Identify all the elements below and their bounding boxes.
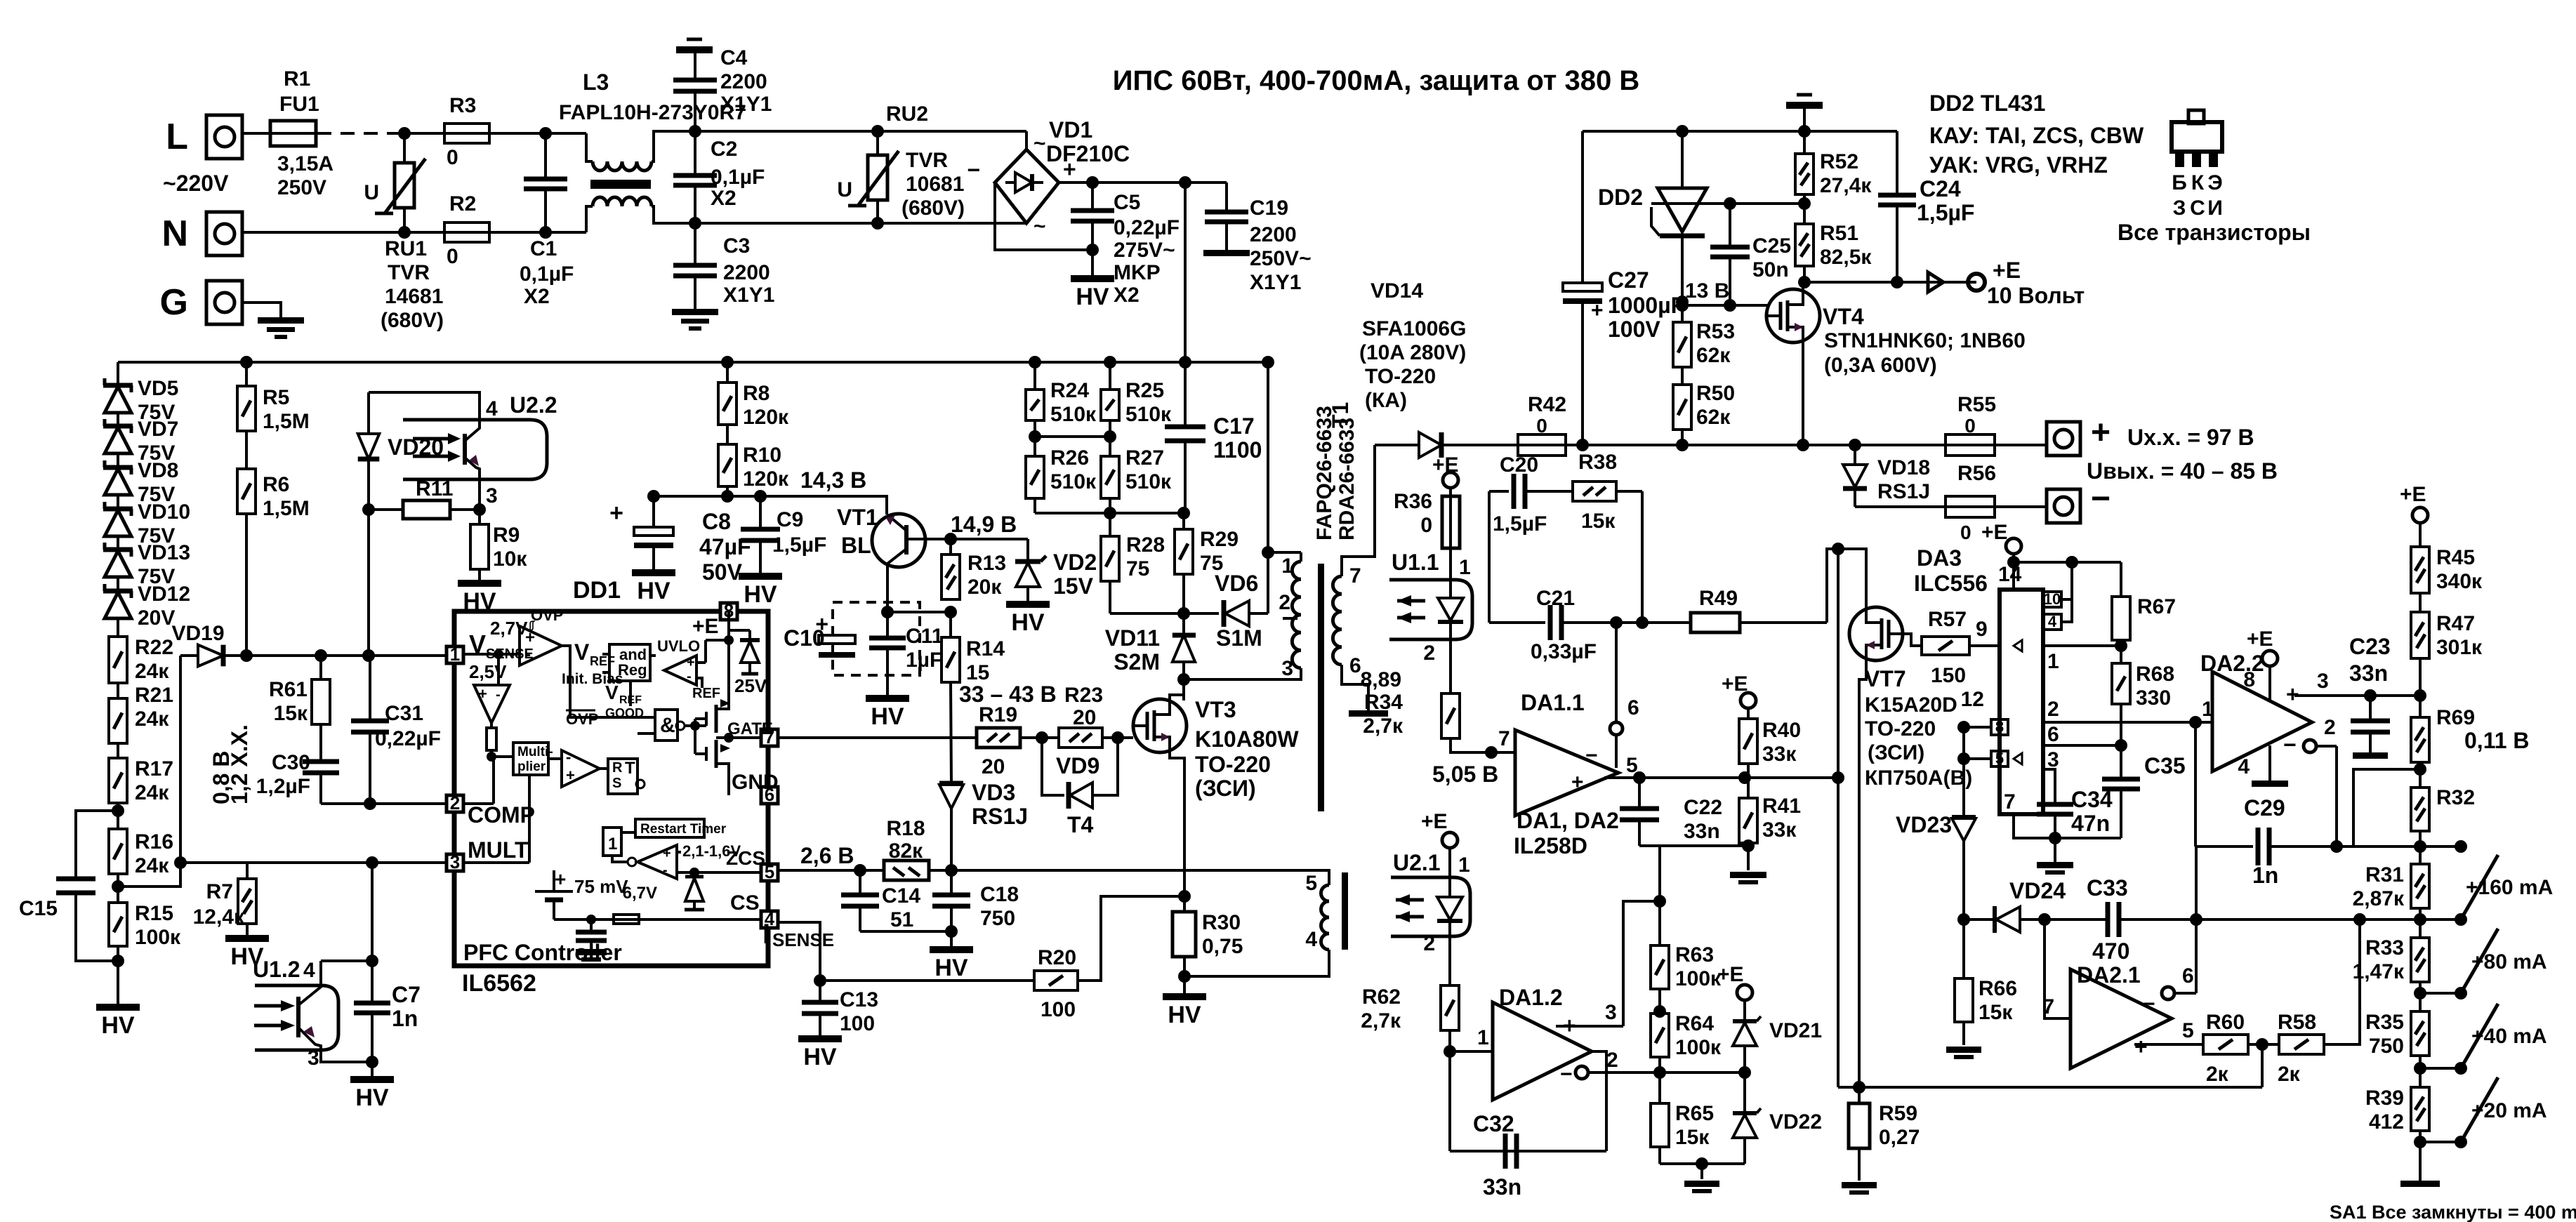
svg-text:R49: R49 (1699, 587, 1738, 610)
resistor R14 (949, 612, 952, 637)
svg-text:X2: X2 (1114, 284, 1140, 307)
svg-text:R38: R38 (1578, 451, 1617, 474)
svg-text:C24: C24 (1920, 176, 1961, 201)
comparator current (562, 750, 600, 787)
wire to VD23 (1962, 727, 1965, 817)
ground HV R7 (246, 924, 249, 935)
opamp DA1.2 (1493, 1002, 1592, 1100)
resistor R69 (2411, 717, 2429, 762)
svg-text:(680V): (680V) (901, 197, 965, 220)
node link left (1029, 430, 1041, 443)
node R40 (1738, 771, 1751, 784)
node minus row left (1653, 1066, 1666, 1079)
wire CS net (778, 922, 820, 981)
svg-text:120к: 120к (743, 467, 789, 491)
svg-text:301к: 301к (2436, 636, 2483, 659)
svg-text:IL6562: IL6562 (462, 970, 536, 997)
wire riser from drain line (1837, 549, 1839, 1087)
svg-text:250V~: 250V~ (1250, 247, 1312, 270)
terminal N (206, 212, 242, 255)
svg-text:S: S (612, 776, 621, 791)
svg-text:R31: R31 (2365, 863, 2404, 886)
svg-text:75: 75 (1126, 557, 1149, 580)
resistor R30 (1183, 896, 1186, 912)
wire N terminal to RU1 (242, 231, 445, 234)
secondary winding 7-6 (1342, 445, 1375, 576)
resistor R61 (319, 656, 322, 679)
pin 8 +E (720, 603, 737, 620)
svg-text:N: N (161, 213, 188, 254)
svg-text:0: 0 (1960, 522, 1971, 543)
svg-text:K15A20D: K15A20D (1865, 693, 1957, 717)
svg-text:47n: 47n (2071, 811, 2110, 836)
svg-text:TO-220: TO-220 (1195, 752, 1271, 777)
svg-text:R29: R29 (1200, 528, 1239, 551)
svg-text:Restart Timer: Restart Timer (640, 822, 727, 837)
capacitor C10 optional dashed (833, 602, 920, 675)
wire (245, 431, 248, 469)
switch SA1.2 (2420, 918, 2461, 921)
node VT3 source R30 (1178, 890, 1191, 903)
svg-text:33n: 33n (1483, 1174, 1521, 1200)
svg-text:VD24: VD24 (2009, 878, 2066, 903)
svg-text:24к: 24к (135, 854, 169, 877)
svg-text:U: U (364, 181, 379, 204)
svg-text:1: 1 (608, 835, 617, 854)
node R17-R16 (117, 803, 119, 829)
svg-text:10681: 10681 (906, 173, 964, 196)
node VT4 source join (1797, 439, 1809, 451)
svg-text:5: 5 (1305, 872, 1317, 895)
wire C11 row (887, 611, 951, 613)
capacitor C11 (886, 612, 889, 637)
node row5 (2414, 1136, 2426, 1148)
node row4 (2414, 1062, 2426, 1075)
svg-text:1µF: 1µF (906, 649, 942, 672)
wire (2419, 593, 2422, 612)
svg-text:GOOD: GOOD (605, 706, 644, 720)
svg-text:R5: R5 (263, 386, 289, 409)
svg-text:1,5µF: 1,5µF (1917, 200, 1974, 225)
svg-text:HV: HV (934, 955, 968, 981)
svg-text:L: L (166, 117, 188, 157)
svg-text:5: 5 (2182, 1019, 2194, 1042)
svg-text:1: 1 (1477, 1026, 1489, 1049)
resistor R26 (1026, 456, 1044, 498)
svg-text:2200: 2200 (720, 70, 767, 93)
wire VT4 source (1802, 340, 1804, 442)
pin 4 CS (761, 911, 778, 928)
svg-text:+: + (687, 655, 695, 670)
wire comp (463, 802, 494, 805)
wire (1803, 194, 1806, 224)
svg-text:VD11: VD11 (1105, 625, 1160, 651)
resistor R22 (117, 635, 119, 637)
terminal L (206, 115, 242, 159)
resistor R6 (237, 469, 256, 514)
node row3 (2414, 987, 2426, 999)
capacitor C23 (2369, 696, 2372, 719)
svg-text:3: 3 (486, 484, 498, 507)
svg-text:OVP: OVP (566, 710, 598, 728)
svg-text:3: 3 (450, 851, 460, 872)
svg-text:C17: C17 (1213, 413, 1255, 439)
svg-text:~220V: ~220V (163, 171, 229, 196)
resistor R59 (1858, 1087, 1861, 1103)
switch SA1.4 (2420, 1067, 2461, 1070)
wire R27 bottom (1109, 498, 1111, 513)
svg-text:4: 4 (303, 959, 315, 982)
wire U2.2 pin3 (478, 479, 481, 510)
svg-text:REF: REF (692, 686, 720, 701)
svg-text:R21: R21 (135, 684, 173, 707)
capacitor C31 (369, 656, 371, 719)
wire secondary plus net (1375, 444, 1419, 446)
resistor R31 (2411, 864, 2429, 908)
svg-text:R7: R7 (206, 880, 233, 903)
svg-text:C15: C15 (19, 897, 58, 920)
ground R59 (1842, 1182, 1877, 1188)
svg-text:4: 4 (2238, 755, 2250, 778)
svg-text:HV: HV (637, 578, 671, 604)
wire (1102, 736, 1133, 739)
pin 4 box (2043, 614, 2061, 630)
wire sense row 1549 (1838, 1086, 2262, 1089)
node C22 (1633, 771, 1646, 784)
svg-text:C19: C19 (1250, 197, 1288, 220)
node R30 bottom (1178, 970, 1191, 983)
mosfet VT7 (1849, 607, 1903, 660)
svg-text:1: 1 (1458, 854, 1470, 877)
wire R26 bottom (1033, 498, 1036, 513)
capacitor C3 (694, 223, 696, 264)
svg-text:7: 7 (1498, 727, 1510, 750)
switch SA1.1 (2420, 845, 2461, 848)
svg-text:+: + (1571, 771, 1584, 794)
capacitor C29 (2195, 845, 2253, 848)
svg-text:2: 2 (1279, 591, 1290, 614)
svg-text:FU1: FU1 (279, 93, 319, 116)
svg-text:C21: C21 (1536, 587, 1575, 610)
svg-text:S1M: S1M (1216, 625, 1262, 651)
svg-text:V: V (605, 682, 619, 703)
wire U2.2 pin4 feed (369, 392, 480, 420)
wire minus row (1660, 1071, 1745, 1074)
terminal minus (2047, 489, 2080, 523)
capacitor C5 (1091, 182, 1094, 209)
svg-text:COMP: COMP (468, 802, 535, 828)
ground HV chain (96, 1004, 140, 1011)
resistor R67 (2120, 562, 2122, 597)
svg-text:R63: R63 (1675, 943, 1714, 967)
node R50 (1676, 439, 1689, 451)
minus input DA2.1 (2162, 987, 2174, 999)
diode VD18 (1854, 445, 1856, 465)
svg-text:(10A 280V): (10A 280V) (1359, 341, 1466, 364)
wire pin6 row (2043, 744, 2121, 747)
svg-text:HV: HV (744, 581, 777, 608)
svg-text:275V~: 275V~ (1114, 239, 1175, 262)
svg-text:0: 0 (1420, 514, 1432, 537)
svg-text:0,22µF: 0,22µF (1114, 216, 1180, 239)
resistor R17 (109, 758, 127, 803)
svg-text:1,2 X.X.: 1,2 X.X. (227, 724, 252, 804)
svg-text:0: 0 (447, 245, 458, 268)
svg-text:2: 2 (1606, 1049, 1618, 1072)
svg-text:50V: 50V (702, 559, 743, 585)
wire pin7 to ground node (2014, 814, 2055, 838)
svg-text:+E: +E (1981, 521, 2008, 544)
wire (117, 683, 119, 698)
node rail C17 (1179, 356, 1191, 368)
svg-text:Uвых. = 40 – 85 В: Uвых. = 40 – 85 В (2087, 458, 2278, 484)
svg-text:0,1µF: 0,1µF (520, 263, 574, 286)
resistor R25 (1109, 362, 1111, 390)
wire L rail RU1 to R3 (404, 132, 445, 135)
svg-text:DA1, DA2: DA1, DA2 (1517, 808, 1619, 833)
svg-text:MKP: MKP (1114, 261, 1161, 284)
node VD18 (1849, 439, 1861, 451)
capacitor C35 (2120, 745, 2122, 778)
svg-text:2: 2 (1423, 932, 1435, 955)
svg-text:15к: 15к (274, 702, 308, 725)
svg-text:REF: REF (590, 654, 615, 668)
svg-text:R8: R8 (743, 382, 770, 405)
svg-text:C3: C3 (723, 234, 750, 258)
svg-text:+E: +E (1421, 810, 1448, 833)
node C33 right (2190, 913, 2202, 926)
node gate VD9 right (1111, 731, 1124, 744)
wire DA2.2 out riser (2194, 722, 2197, 846)
svg-text:Multi-: Multi- (517, 745, 553, 759)
node DA1.1 in (1485, 746, 1498, 759)
svg-text:5: 5 (1995, 750, 2004, 767)
resistor R23 (1059, 728, 1102, 748)
svg-text:IL258D: IL258D (1514, 833, 1587, 858)
wire gate line (778, 736, 955, 739)
wire DD2 top rail (1583, 130, 1897, 133)
ground top for C4 (676, 46, 713, 53)
svg-text:1,5M: 1,5M (263, 497, 310, 520)
svg-text:340к: 340к (2436, 570, 2483, 593)
svg-text:R26: R26 (1050, 446, 1089, 470)
svg-text:VD18: VD18 (1877, 456, 1930, 479)
resistor R68 (2112, 663, 2130, 704)
node pin1 internal (494, 649, 503, 659)
svg-text:RDA26-6633: RDA26-6633 (1335, 418, 1359, 540)
output DA1.2 (1592, 1051, 1606, 1151)
svg-text:VD22: VD22 (1769, 1110, 1822, 1134)
resistor R10 (718, 444, 737, 486)
svg-text:VD13: VD13 (138, 541, 190, 564)
wire CS to R20 (820, 979, 1035, 982)
IC DD1 block (454, 611, 768, 966)
zener diode VD7 (117, 420, 119, 427)
wire VT1 base (906, 538, 951, 540)
svg-text:К: К (2191, 171, 2205, 194)
svg-text:2200: 2200 (1250, 223, 1297, 246)
svg-text:C25: C25 (1752, 234, 1791, 258)
wire row 731 (1035, 512, 1184, 514)
ground HV C18 (950, 931, 953, 946)
core bar T1 top (1318, 564, 1324, 811)
svg-text:510к: 510к (1125, 470, 1172, 493)
svg-text:1,5µF: 1,5µF (1493, 512, 1547, 536)
capacitor C1 (544, 133, 547, 178)
svg-text:10: 10 (2044, 590, 2061, 608)
ground VD22 (1700, 1164, 1703, 1179)
capacitor C20 (1489, 490, 1509, 493)
wire bridge minus to HV node (995, 182, 1087, 250)
svg-text:C2: C2 (711, 138, 737, 161)
svg-text:62к: 62к (1696, 344, 1731, 367)
wire ovp to and (562, 646, 655, 717)
resistor R45 (2411, 547, 2429, 593)
ground HV C7 (371, 1062, 374, 1076)
diode VD9 (1042, 738, 1064, 795)
svg-text:R: R (612, 760, 623, 776)
svg-text:R56: R56 (1957, 462, 1996, 485)
svg-text:V: V (574, 639, 590, 665)
svg-text:27,4к: 27,4к (1820, 174, 1872, 197)
wire R51 to +E row (1803, 266, 1806, 282)
resistor R49 (1642, 621, 1691, 624)
svg-text:(ЗСИ): (ЗСИ) (1868, 741, 1924, 764)
resistor R62 (1441, 985, 1459, 1030)
svg-text:TVR: TVR (388, 261, 430, 284)
capacitor C13 (819, 981, 821, 1001)
svg-text:2,7V: 2,7V (490, 618, 528, 639)
wire VSENSE line (246, 654, 447, 657)
svg-text:2: 2 (1423, 642, 1435, 665)
node N-RU1 (398, 226, 411, 239)
wire R34 to DA1.1 (1451, 738, 1515, 752)
node R13 bottom (944, 606, 957, 618)
plus input DA1.2 (1556, 1025, 1623, 1028)
svg-text:+: + (815, 611, 828, 637)
svg-text:С: С (2190, 197, 2205, 220)
svg-text:−: − (2283, 732, 2297, 757)
node T1 pin1 (1262, 546, 1274, 559)
wire R55 to plus terminal (1995, 444, 2047, 446)
svg-text:HV: HV (803, 1044, 837, 1070)
node comp internal (487, 752, 496, 762)
wire U1.2 pin3 (321, 1050, 372, 1062)
svg-text:510к: 510к (1050, 470, 1097, 493)
node C24 bottom (1891, 276, 1903, 288)
svg-text:R9: R9 (493, 524, 520, 547)
node R15 bottom (117, 946, 119, 1004)
svg-text:R19: R19 (979, 703, 1017, 726)
wire driver to gate pin (716, 736, 761, 739)
resistor R57 (1903, 634, 1922, 646)
node C23 (2364, 689, 2377, 702)
svg-text:DD2: DD2 (1598, 185, 1643, 210)
svg-text:R24: R24 (1050, 379, 1089, 402)
svg-text:20V: 20V (138, 606, 175, 630)
svg-text:75 mV: 75 mV (574, 876, 628, 897)
svg-text:20к: 20к (967, 576, 1002, 599)
svg-text:R13: R13 (967, 552, 1006, 575)
IC DA3 block (2000, 590, 2043, 814)
svg-text:C14: C14 (882, 884, 920, 908)
svg-text:C9: C9 (777, 508, 803, 531)
wire pin1 to ovp (463, 653, 520, 656)
multiplier box (513, 743, 548, 775)
svg-text:И: И (2207, 197, 2223, 220)
svg-text:14681: 14681 (385, 285, 443, 308)
ground C34 (2037, 862, 2073, 868)
node DD2 rail (1676, 125, 1689, 138)
svg-text:R57: R57 (1928, 608, 1967, 631)
flipflop RS-T (608, 759, 638, 794)
svg-text:HV: HV (1168, 1002, 1201, 1028)
transistor VT3 mosfet (1133, 699, 1187, 752)
node pin3-R11 (473, 503, 486, 516)
svg-text:FAPL10H-273Y0R7: FAPL10H-273Y0R7 (559, 101, 746, 124)
svg-text:7: 7 (2042, 995, 2054, 1018)
node PFC feed (1179, 176, 1191, 189)
svg-text:C33: C33 (2087, 875, 2128, 901)
svg-text:412: 412 (2369, 1110, 2404, 1134)
wire R16 tap to VD19 riser (118, 656, 180, 886)
node ZCS VD3 (945, 864, 958, 877)
ground top DD2 (1786, 102, 1823, 109)
svg-text:R14: R14 (966, 637, 1005, 660)
svg-text:R64: R64 (1675, 1012, 1714, 1035)
svg-text:STN1HNK60; 1NB60: STN1HNK60; 1NB60 (1824, 329, 2026, 352)
ground HV VD2 (1006, 601, 1050, 608)
node C1 bottom (539, 226, 552, 239)
svg-text:TO-220: TO-220 (1865, 717, 1936, 740)
svg-text:0,33µF: 0,33µF (1531, 640, 1597, 663)
svg-text:T: T (625, 759, 635, 778)
svg-text:6: 6 (2047, 723, 2059, 746)
varistor RU1 (403, 133, 406, 163)
svg-text:~: ~ (1033, 132, 1046, 155)
svg-text:R34: R34 (1364, 691, 1403, 714)
svg-text:FAPQ26-6633: FAPQ26-6633 (1313, 406, 1336, 540)
svg-text:R10: R10 (743, 444, 781, 467)
diode VD22 zener (1743, 1072, 1746, 1113)
pin 10 box (2043, 592, 2061, 607)
node ZCS C14 (854, 864, 866, 877)
svg-text:R15: R15 (135, 902, 173, 925)
wire U1.2 pin4 to C7 (321, 959, 372, 962)
svg-text:3: 3 (2317, 670, 2329, 693)
tap 2 (1283, 617, 1297, 620)
svg-text:33n: 33n (1684, 820, 1720, 843)
svg-text:DA1.1: DA1.1 (1521, 690, 1585, 715)
svg-text:C27: C27 (1608, 267, 1649, 293)
svg-text:8: 8 (2243, 668, 2255, 691)
wire R2 to C1 (489, 231, 586, 234)
zener diode VD10 (117, 503, 119, 510)
svg-text:ILC556: ILC556 (1914, 571, 1988, 596)
varistor RU2 (876, 131, 879, 155)
svg-text:+: + (555, 868, 566, 890)
wire zcs internal (677, 871, 761, 874)
resistor R3 (444, 124, 489, 143)
zener 25V internal (729, 629, 750, 632)
ground chain (2400, 1181, 2440, 1187)
wire C14 to C18 bottom (860, 930, 951, 933)
terminal plus (2047, 422, 2080, 456)
capacitor C30 (319, 724, 322, 760)
svg-text:0: 0 (1964, 415, 1976, 437)
wire plus node down to R41 (1747, 778, 1750, 798)
svg-text:R51: R51 (1820, 222, 1858, 245)
